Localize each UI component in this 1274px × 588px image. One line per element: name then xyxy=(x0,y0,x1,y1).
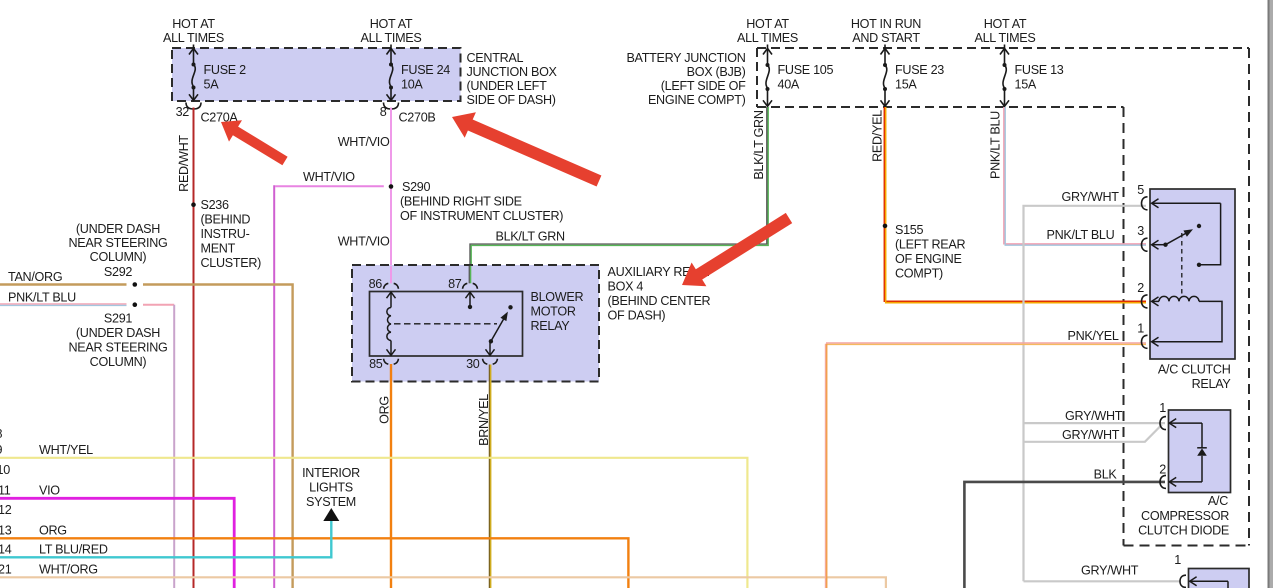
svg-text:21: 21 xyxy=(0,562,12,576)
relay K2 pin 2 coil xyxy=(1142,295,1148,308)
svg-text:15A: 15A xyxy=(1015,78,1037,92)
svg-text:CLUTCH DIODE: CLUTCH DIODE xyxy=(1138,524,1229,538)
relay K2 pin 1 xyxy=(1142,335,1148,348)
svg-text:COMPT): COMPT) xyxy=(895,267,943,281)
svg-text:WHT/ORG: WHT/ORG xyxy=(39,562,98,576)
svg-text:FUSE 2: FUSE 2 xyxy=(204,63,247,77)
wire VIO row 11 xyxy=(0,498,234,588)
svg-text:BLK/LT GRN: BLK/LT GRN xyxy=(752,110,766,180)
relay K2 armature dashed link xyxy=(1181,233,1183,297)
svg-text:CENTRAL: CENTRAL xyxy=(467,51,524,65)
wire PNK/YEL to A/C relay pin 1 xyxy=(825,343,1146,588)
svg-text:CLUSTER): CLUSTER) xyxy=(201,256,262,270)
svg-text:(BEHIND: (BEHIND xyxy=(201,213,251,227)
svg-text:1: 1 xyxy=(1159,401,1166,415)
svg-text:VIO: VIO xyxy=(39,483,60,497)
diode pin 2 xyxy=(1160,475,1166,488)
svg-text:RELAY: RELAY xyxy=(1192,377,1232,391)
labels (UNDER DASH NEAR STEERING COLUMN) S292 xyxy=(69,222,168,279)
battery junction box (BJB) dashed outline xyxy=(757,48,1249,107)
wire WHT/VIO vertical drop xyxy=(273,185,275,588)
wire GRY/WHT to relay pin 5 xyxy=(1024,206,1147,582)
svg-text:NEAR STEERING: NEAR STEERING xyxy=(69,236,168,250)
svg-text:A/C: A/C xyxy=(1208,494,1228,508)
wire GRY/WHT to bottom connector xyxy=(1024,580,1180,582)
svg-text:15A: 15A xyxy=(895,78,917,92)
svg-text:S292: S292 xyxy=(104,265,133,279)
svg-text:WHT/YEL: WHT/YEL xyxy=(39,443,93,457)
svg-text:ALL TIMES: ALL TIMES xyxy=(737,31,798,45)
svg-text:30: 30 xyxy=(466,357,480,371)
svg-text:INTERIOR: INTERIOR xyxy=(302,466,360,480)
svg-text:(UNDER DASH: (UNDER DASH xyxy=(76,326,160,340)
svg-text:ORG: ORG xyxy=(378,396,392,424)
svg-text:GRY/WHT: GRY/WHT xyxy=(1065,409,1123,423)
svg-text:GRY/WHT: GRY/WHT xyxy=(1081,564,1139,578)
svg-text:HOT AT: HOT AT xyxy=(984,17,1027,31)
relay contact pin 87 xyxy=(466,292,475,309)
auxiliary relay box 4 dashed outline xyxy=(352,265,599,382)
svg-text:PNK/LT BLU: PNK/LT BLU xyxy=(989,111,1003,179)
A/C component dashed box xyxy=(1124,48,1250,546)
svg-text:ALL TIMES: ALL TIMES xyxy=(163,31,224,45)
svg-text:FUSE 23: FUSE 23 xyxy=(895,63,944,77)
A/C clutch relay K2 xyxy=(1150,189,1235,359)
svg-text:BLK: BLK xyxy=(1094,468,1118,482)
svg-text:PNK/LT BLU: PNK/LT BLU xyxy=(8,291,76,305)
wire WHT/VIO branch from S290 xyxy=(275,185,384,187)
svg-text:86: 86 xyxy=(369,277,383,291)
svg-text:PNK/YEL: PNK/YEL xyxy=(1068,329,1119,343)
fuse F24 10A xyxy=(387,45,396,101)
wire WHT/ORG row 21 xyxy=(0,577,886,588)
svg-text:87: 87 xyxy=(448,277,462,291)
svg-text:RED/YEL: RED/YEL xyxy=(871,110,885,162)
svg-text:8: 8 xyxy=(0,427,3,441)
svg-text:9: 9 xyxy=(0,443,3,457)
svg-text:AND START: AND START xyxy=(852,31,920,45)
svg-text:BLK/LT GRN: BLK/LT GRN xyxy=(496,230,566,244)
svg-text:RELAY: RELAY xyxy=(531,319,571,333)
diode symbol xyxy=(1169,419,1207,487)
svg-text:ORG: ORG xyxy=(39,523,67,537)
svg-text:1: 1 xyxy=(1174,553,1181,567)
central junction box C1 (CJB) xyxy=(172,48,558,107)
svg-text:BLOWER: BLOWER xyxy=(531,290,584,304)
svg-text:S290: S290 xyxy=(402,180,431,194)
relay coil between 86 and 85 xyxy=(387,292,396,356)
svg-text:11: 11 xyxy=(0,483,11,497)
svg-text:HOT IN RUN: HOT IN RUN xyxy=(851,17,921,31)
svg-text:LIGHTS: LIGHTS xyxy=(309,481,353,495)
svg-text:BOX 4: BOX 4 xyxy=(608,280,644,294)
svg-text:MENT: MENT xyxy=(201,242,236,256)
svg-text:SYSTEM: SYSTEM xyxy=(306,495,356,509)
svg-text:PNK/LT BLU: PNK/LT BLU xyxy=(1047,228,1115,242)
node S155 xyxy=(883,224,888,229)
svg-text:ALL TIMES: ALL TIMES xyxy=(361,31,422,45)
wire PNK/LT BLU from fuse 13 xyxy=(1004,107,1146,245)
wire RED/YEL from fuse 23 xyxy=(884,107,1146,303)
wire RED/WHT from C270A xyxy=(193,108,195,588)
power feed HOT AT ALL TIMES (fuse 13) xyxy=(975,17,1036,45)
wire WHT/VIO from C270B xyxy=(390,108,392,284)
svg-text:3: 3 xyxy=(1137,224,1144,238)
pin 87 connector xyxy=(463,283,478,289)
connector pin 8 C270B xyxy=(380,103,436,125)
svg-text:TAN/ORG: TAN/ORG xyxy=(8,270,62,284)
svg-text:85: 85 xyxy=(369,357,383,371)
svg-text:INSTRU-: INSTRU- xyxy=(201,227,250,241)
svg-text:5A: 5A xyxy=(204,78,220,92)
svg-text:2: 2 xyxy=(1159,463,1166,477)
svg-text:MOTOR: MOTOR xyxy=(531,305,576,319)
svg-text:OF INSTRUMENT CLUSTER): OF INSTRUMENT CLUSTER) xyxy=(400,209,563,223)
svg-text:(UNDER LEFT: (UNDER LEFT xyxy=(467,79,548,93)
A/C compressor clutch diode D1 xyxy=(1169,410,1231,493)
svg-text:GRY/WHT: GRY/WHT xyxy=(1062,190,1120,204)
svg-text:BATTERY JUNCTION: BATTERY JUNCTION xyxy=(626,51,745,65)
svg-text:1: 1 xyxy=(1137,322,1144,336)
svg-text:JUNCTION BOX: JUNCTION BOX xyxy=(467,65,558,79)
fuse F2 5A xyxy=(189,45,198,101)
svg-text:(LEFT REAR: (LEFT REAR xyxy=(895,238,965,252)
power feed HOT AT ALL TIMES (fuse 2) xyxy=(163,17,224,45)
svg-text:(UNDER DASH: (UNDER DASH xyxy=(76,222,160,236)
wire GRY/WHT to diode pin 1 (lower) xyxy=(1024,425,1163,442)
svg-text:COLUMN): COLUMN) xyxy=(90,250,147,264)
svg-text:FUSE 13: FUSE 13 xyxy=(1015,63,1064,77)
power feed HOT AT ALL TIMES (fuse 24) xyxy=(361,17,422,45)
svg-text:(BEHIND RIGHT SIDE: (BEHIND RIGHT SIDE xyxy=(400,195,522,209)
relay K2 pin 3 xyxy=(1142,238,1148,251)
svg-text:32: 32 xyxy=(176,105,190,119)
wire BLK to diode pin 2 xyxy=(964,482,1165,588)
node S290 xyxy=(389,184,394,189)
svg-text:COLUMN): COLUMN) xyxy=(90,355,147,369)
power feed HOT IN RUN AND START (fuse 23) xyxy=(851,17,921,45)
svg-text:HOT AT: HOT AT xyxy=(370,17,413,31)
svg-text:HOT AT: HOT AT xyxy=(746,17,789,31)
svg-text:10: 10 xyxy=(0,463,10,477)
relay armature dashed link xyxy=(394,323,497,325)
node S292 xyxy=(133,282,138,287)
svg-text:FUSE 24: FUSE 24 xyxy=(401,63,450,77)
wire WHT/YEL row 9 xyxy=(0,458,747,588)
wire GRY/WHT to diode pin 1 (upper) xyxy=(1024,422,1166,424)
svg-text:HOT AT: HOT AT xyxy=(172,17,215,31)
svg-text:40A: 40A xyxy=(778,78,800,92)
node S291 xyxy=(133,302,138,307)
svg-text:14: 14 xyxy=(0,542,12,556)
pin 85 connector xyxy=(384,359,399,365)
interior lights system arrow xyxy=(302,466,360,509)
svg-text:OF DASH): OF DASH) xyxy=(608,309,666,323)
svg-text:BRN/YEL: BRN/YEL xyxy=(477,394,491,446)
annotation arrow B to C270B xyxy=(452,112,601,186)
wire BRN/YEL from pin 30 xyxy=(488,365,490,588)
wire WHT/VIO stub into pin 86 xyxy=(390,266,392,284)
wire ORG from pin 85 xyxy=(390,364,392,588)
svg-text:OF ENGINE: OF ENGINE xyxy=(895,252,962,266)
connector pin 32 C270A xyxy=(176,103,239,125)
fuse F23 15A xyxy=(881,45,890,107)
pin 86 connector xyxy=(384,283,399,289)
svg-text:WHT/VIO: WHT/VIO xyxy=(303,170,355,184)
svg-text:S291: S291 xyxy=(104,312,133,326)
pin 30 connector xyxy=(483,359,498,365)
window edge bar right xyxy=(1268,0,1270,588)
svg-text:10A: 10A xyxy=(401,78,423,92)
svg-text:GRY/WHT: GRY/WHT xyxy=(1062,428,1120,442)
annotation arrow A to C270A xyxy=(221,120,288,165)
svg-text:8: 8 xyxy=(380,105,387,119)
svg-text:5: 5 xyxy=(1137,183,1144,197)
svg-text:A/C CLUTCH: A/C CLUTCH xyxy=(1158,363,1231,377)
svg-text:WHT/VIO: WHT/VIO xyxy=(338,235,390,249)
svg-text:S155: S155 xyxy=(895,223,924,237)
fuse F13 15A xyxy=(1000,45,1009,107)
wire BLK/LT GRN stub into pin 87 xyxy=(468,266,470,284)
svg-text:ENGINE COMPT): ENGINE COMPT) xyxy=(648,93,746,107)
bottom box pin 1 xyxy=(1180,575,1186,587)
annotation arrow C to aux relay box xyxy=(682,213,792,286)
svg-text:NEAR STEERING: NEAR STEERING xyxy=(69,341,168,355)
svg-text:2: 2 xyxy=(1137,281,1144,295)
svg-text:LT BLU/RED: LT BLU/RED xyxy=(39,542,108,556)
relay K2 pin 5 xyxy=(1142,197,1148,210)
node S236 xyxy=(191,202,196,207)
svg-text:FUSE 105: FUSE 105 xyxy=(778,63,834,77)
svg-text:ALL TIMES: ALL TIMES xyxy=(975,31,1036,45)
power feed HOT AT ALL TIMES (fuse 105) xyxy=(737,17,798,45)
wire ORG row 13 xyxy=(0,538,628,588)
bottom connector box (cut off) xyxy=(1189,569,1250,588)
svg-text:RED/WHT: RED/WHT xyxy=(177,135,191,192)
fuse F105 40A xyxy=(763,45,772,107)
wire BLK/LT GRN from fuse 105 xyxy=(470,107,768,284)
svg-text:COMPRESSOR: COMPRESSOR xyxy=(1141,509,1229,523)
svg-text:BOX (BJB): BOX (BJB) xyxy=(687,65,746,79)
svg-text:WHT/VIO: WHT/VIO xyxy=(338,135,390,149)
svg-text:13: 13 xyxy=(0,523,12,537)
svg-text:(LEFT SIDE OF: (LEFT SIDE OF xyxy=(661,79,746,93)
svg-text:C270B: C270B xyxy=(399,111,436,125)
svg-text:(BEHIND CENTER: (BEHIND CENTER xyxy=(608,294,711,308)
wire LT BLU/RED row 14 xyxy=(0,520,331,557)
blower motor relay K1 xyxy=(370,292,523,357)
svg-text:SIDE OF DASH): SIDE OF DASH) xyxy=(467,93,556,107)
relay switch arm pin 30 to 87 xyxy=(486,305,513,355)
diode pin 1 xyxy=(1160,417,1166,430)
svg-text:S236: S236 xyxy=(201,198,230,212)
svg-text:12: 12 xyxy=(0,503,12,517)
